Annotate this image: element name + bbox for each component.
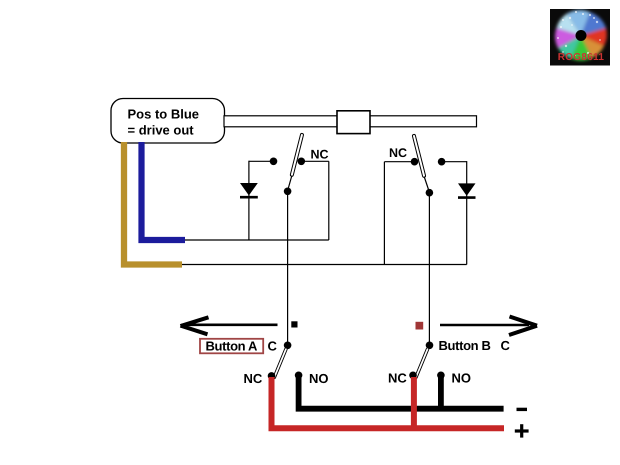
arrow left (retract direction): [181, 317, 278, 334]
Button A: lever: [273, 348, 288, 380]
minus terminal label: [517, 408, 528, 411]
Button A: NC label: [244, 371, 263, 386]
svg-text:NC: NC: [388, 371, 407, 386]
Button A label box: [200, 339, 263, 354]
diode D2: [458, 183, 476, 197]
Button A: C label: [268, 339, 278, 354]
wire from gold to right relay box bottom: [182, 264, 467, 266]
Button B: NO node dot: [437, 372, 445, 380]
wire: right common down to Button B: [428, 193, 430, 345]
right relay: contact wire left: [384, 161, 411, 163]
left relay: diode branch wire: [248, 161, 250, 240]
right relay: common node dot: [426, 189, 434, 197]
blue wire: [142, 142, 186, 240]
right relay: switch lever: [412, 134, 429, 191]
wire: left common down to Button A: [287, 191, 289, 345]
logo ROG8611: [550, 9, 610, 66]
left relay: common node dot: [284, 188, 292, 196]
svg-text:= drive out: = drive out: [128, 123, 195, 138]
left relay: contact wire left: [249, 160, 271, 162]
Button A: NO node dot: [295, 372, 303, 380]
gold wire: [124, 142, 182, 265]
right relay: NC label: [389, 146, 407, 160]
svg-text:NC: NC: [311, 148, 329, 162]
left relay: right side wire: [328, 161, 330, 240]
left relay: node dot NC contact: [298, 158, 306, 166]
left relay: node dot left contact: [270, 158, 278, 166]
svg-text:NO: NO: [309, 371, 329, 386]
right relay: contact wire right: [445, 161, 467, 163]
svg-text:ROG8611: ROG8611: [558, 52, 605, 63]
positive bus red wire: [272, 377, 505, 429]
left relay: NC label: [311, 148, 329, 162]
right relay: left side wire: [383, 162, 385, 265]
piston body: [337, 111, 370, 134]
Button B label: [439, 338, 491, 353]
svg-text:Pos to Blue: Pos to Blue: [128, 107, 200, 122]
Button A: C node dot: [284, 342, 292, 350]
svg-text:NC: NC: [389, 146, 407, 160]
black square marker: [291, 321, 297, 327]
cylinder rod: [224, 116, 477, 127]
Button B: NC label: [388, 371, 407, 386]
dark red square marker: [416, 322, 424, 330]
plus terminal label: [515, 424, 529, 437]
svg-text:NO: NO: [452, 371, 472, 386]
Button B: C label: [501, 338, 511, 353]
svg-text:NC: NC: [244, 371, 263, 386]
svg-text:Button B: Button B: [439, 338, 491, 353]
negative bus black wire: [299, 377, 504, 409]
callout box "Pos to Blue = drive out": [111, 99, 225, 144]
left relay: contact wire right: [305, 160, 329, 162]
Button B: lever: [414, 348, 429, 380]
diode D1: [240, 183, 258, 197]
right relay: node dot NC contact: [411, 158, 419, 166]
left relay: switch lever: [288, 133, 304, 190]
Button B: NC node dot: [409, 372, 417, 380]
Button B: C node dot: [426, 342, 434, 350]
Button A: NO label: [309, 371, 329, 386]
svg-text:C: C: [501, 338, 511, 353]
svg-text:Button A: Button A: [206, 339, 259, 354]
right relay: node dot right contact: [438, 158, 446, 166]
svg-text:C: C: [268, 339, 278, 354]
wire from blue to left relay box bottom: [185, 239, 329, 241]
right relay: diode branch wire: [466, 161, 468, 264]
Button B: NO label: [452, 371, 472, 386]
arrow right (extend direction): [440, 317, 537, 336]
Button A: NC node dot: [268, 372, 276, 380]
